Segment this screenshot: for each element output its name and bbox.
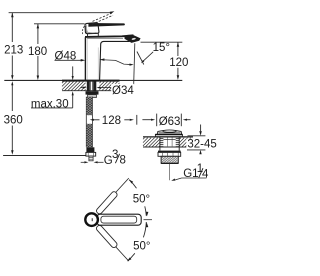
wire: 120 dimension line: [177, 42, 179, 76]
drain cap: [157, 130, 182, 134]
svg-text:360: 360: [4, 114, 23, 126]
wire: lower 50deg arc: [128, 222, 147, 261]
wire: axis extension lines: [116, 178, 129, 192]
lever travel dashed arc: [82, 26, 84, 34]
faucet spout underside and right edge: [100, 41, 130, 80]
wire: 213 top extension line: [9, 12, 111, 14]
sink deck at drain: [143, 136, 193, 138]
wire: water stream vertical line: [134, 43, 135, 84]
node: label O34 with arrows: [80, 87, 82, 89]
drain threaded tail G1 1/4: [161, 156, 178, 163]
flexible supply hose: [86, 97, 92, 148]
drain body through deck: [160, 138, 164, 148]
svg-text:Ø63: Ø63: [159, 116, 181, 128]
svg-text:50°: 50°: [133, 194, 150, 206]
top view: lever horizontal: [97, 214, 141, 225]
wire: 120 top extension line: [141, 41, 183, 43]
lever raised position (dashed) with arrow: [92, 13, 113, 24]
svg-text:max.30: max.30: [31, 98, 69, 110]
wire: drain centerline: [169, 164, 171, 181]
countertop hatching: [62, 82, 86, 91]
top view: lever raised +50 (phantom): [95, 191, 118, 215]
wire: upper 50deg arc: [129, 180, 146, 216]
faucet spout aerator tip (beak): [125, 35, 141, 43]
node: label max.30 with leaders: [72, 66, 74, 76]
drain flange: [155, 135, 182, 137]
svg-text:128: 128: [102, 115, 121, 127]
lever handle (side view, solid): [88, 23, 125, 27]
svg-text:4: 4: [202, 169, 209, 181]
wire: 180 dimension line: [37, 24, 39, 76]
svg-text:8: 8: [120, 154, 126, 166]
hose end fitting: [86, 147, 94, 152]
top view: lever lowered -50 (phantom): [95, 224, 118, 248]
wire: 32-45 dimension: [188, 135, 206, 137]
wire: 128 dimension: [90, 119, 94, 121]
node: label G3/8 with arrows: [81, 161, 85, 163]
countertop bottom line: [62, 90, 120, 92]
svg-text:50°: 50°: [133, 241, 150, 253]
svg-text:Ø34: Ø34: [112, 85, 134, 97]
svg-text:213: 213: [4, 44, 23, 56]
svg-text:15°: 15°: [153, 42, 170, 54]
wire: 15deg tilted axis line: [137, 52, 144, 65]
wire: 213/360 dimension line: [11, 13, 13, 151]
svg-text:120: 120: [169, 57, 188, 69]
countertop deck line: [4, 79, 182, 81]
cartridge dome: [85, 23, 99, 34]
svg-text:32-45: 32-45: [187, 138, 216, 150]
wire: 180 top extension line: [34, 23, 85, 25]
faucet body outline: [84, 37, 86, 80]
wire: 360 bottom extension line: [3, 155, 91, 157]
shank nut: [86, 91, 99, 94]
wire: O63 dimension: [142, 119, 151, 121]
faucet mounting shank: [87, 82, 90, 92]
svg-text:180: 180: [28, 46, 47, 58]
drain nut: [158, 151, 181, 153]
top view: cartridge circle: [85, 213, 98, 226]
wire: O48 right leader: [100, 58, 105, 61]
